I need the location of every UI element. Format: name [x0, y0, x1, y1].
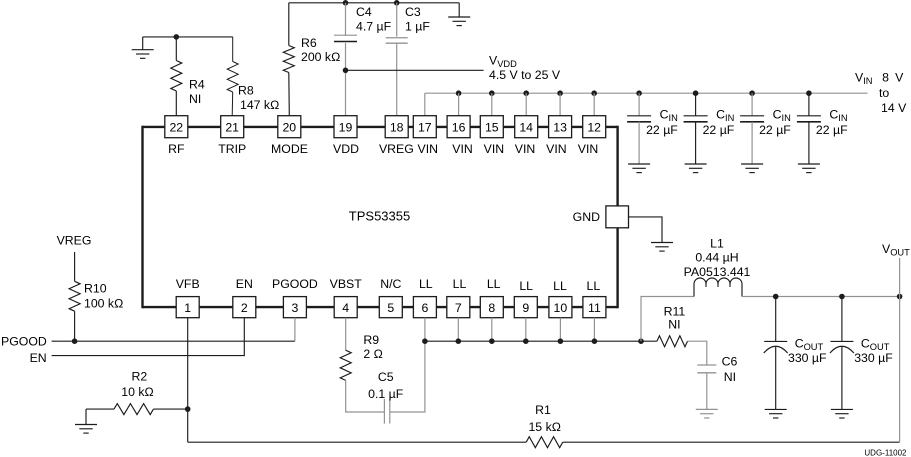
node VIN bus above pin 13 [557, 90, 563, 96]
node VIN bus above pin 12 [591, 90, 597, 96]
wire pin 6 stub [424, 318, 426, 342]
ground G3 (GND pin) [651, 242, 673, 244]
svg-text:VDD: VDD [333, 142, 359, 156]
node LL bus pin 11 [592, 338, 598, 344]
pin box 16 [447, 116, 470, 138]
resistor R4 [171, 61, 182, 92]
wire L1 to VOUT [742, 296, 900, 298]
wire COUT2 bottom lead [841, 347, 843, 410]
resistor R10 [69, 281, 80, 311]
svg-text:200 kΩ: 200 kΩ [301, 50, 340, 64]
wire R4 to pin 22 [175, 91, 177, 116]
wire VFB (pin 1) down [187, 318, 189, 443]
svg-text:18: 18 [390, 120, 404, 134]
wire CIN1 top lead [638, 93, 640, 116]
node LL bus pin 7 [456, 338, 462, 344]
svg-text:0.44 µH: 0.44 µH [695, 251, 738, 265]
svg-text:VREG: VREG [379, 142, 414, 156]
pin box 13 [549, 116, 572, 138]
ground G7 (COUT2) [831, 408, 853, 410]
node R2/VFB junction [185, 406, 191, 412]
wire C4 to pin 19 [345, 43, 347, 116]
pin box 18 [385, 116, 408, 138]
svg-text:22 µF: 22 µF [816, 123, 848, 137]
svg-text:7: 7 [455, 301, 462, 315]
svg-text:10 kΩ: 10 kΩ [121, 385, 153, 399]
svg-text:5: 5 [387, 301, 394, 315]
svg-text:NI: NI [189, 92, 201, 106]
wire R4 top lead [175, 37, 177, 61]
wire ground rail top-left (R4/R8 node) [143, 36, 233, 38]
svg-text:N/C: N/C [380, 277, 401, 291]
svg-text:VIN 8 V: VIN 8 V [855, 70, 904, 86]
svg-text:R2: R2 [132, 370, 148, 384]
wire stem to ground G2 [458, 3, 460, 17]
svg-text:147 kΩ: 147 kΩ [240, 98, 279, 112]
svg-text:LL: LL [419, 277, 433, 291]
chip outline bottom [143, 306, 618, 308]
svg-text:NI: NI [668, 318, 680, 332]
wire GND pin to ground [629, 217, 663, 243]
resistor R11 [657, 336, 688, 347]
svg-text:VREG: VREG [57, 233, 92, 247]
pin box 4 [334, 297, 357, 318]
wire R10 to PGOOD [74, 311, 76, 341]
ground G1 (top-left) [132, 49, 154, 51]
wire pin 8 stub [491, 318, 493, 342]
svg-text:NI: NI [724, 370, 736, 384]
wire pin 9 stub [525, 318, 527, 342]
inductor L1 [694, 278, 742, 297]
svg-text:1 µF: 1 µF [405, 20, 430, 34]
node C4 top junction [343, 0, 349, 6]
capacitor C6 [697, 364, 716, 366]
svg-text:VIN: VIN [515, 142, 536, 156]
pin box 8 [480, 297, 503, 318]
wire COUT1 bottom lead [775, 347, 777, 410]
wire C3 top lead [396, 3, 398, 37]
svg-text:0.1 µF: 0.1 µF [368, 387, 404, 401]
svg-text:330 µF: 330 µF [788, 351, 827, 365]
capacitor CIN4 [797, 115, 821, 117]
svg-text:C5: C5 [378, 370, 394, 384]
wire LL to L1 [641, 297, 694, 342]
svg-text:PA0513.441: PA0513.441 [684, 265, 751, 279]
svg-text:15: 15 [485, 120, 499, 134]
wire CIN2 top lead [695, 93, 697, 116]
svg-text:4.7 µF: 4.7 µF [356, 20, 392, 34]
wire CIN2 bottom lead [695, 122, 697, 164]
wire pin 11 stub [593, 318, 595, 342]
node CIN4 junction [806, 90, 812, 96]
node COUT1 junction [773, 294, 779, 300]
chip outline left [141, 126, 143, 309]
svg-text:16: 16 [452, 120, 466, 134]
svg-text:14: 14 [519, 120, 533, 134]
svg-text:19: 19 [339, 120, 353, 134]
resistor R1 [526, 437, 563, 448]
capacitor C4 [334, 34, 357, 36]
svg-text:11: 11 [588, 301, 601, 315]
resistor R9 [340, 350, 351, 380]
wire pin 4 stub [345, 318, 347, 351]
capacitor CIN2 [684, 115, 708, 117]
ground CIN2 [685, 163, 707, 165]
wire CIN1 bottom lead [638, 122, 640, 164]
svg-text:TPS53355: TPS53355 [349, 208, 410, 223]
pin box 21 [221, 116, 244, 138]
svg-text:MODE: MODE [271, 142, 308, 156]
svg-text:LL: LL [587, 279, 601, 293]
wire pin 3 stub [294, 318, 296, 342]
svg-text:R8: R8 [238, 84, 254, 98]
pin box 11 [583, 297, 606, 318]
svg-text:VIN: VIN [578, 142, 599, 156]
svg-text:VBST: VBST [330, 277, 363, 291]
node R10/PGOOD junction [72, 338, 78, 344]
wire pin 16 stub [458, 93, 460, 116]
svg-text:VFB: VFB [176, 277, 200, 291]
pin box 20 [278, 116, 301, 138]
pin box GND [606, 206, 629, 228]
svg-text:EN: EN [30, 351, 47, 365]
capacitor COUT1 [764, 340, 787, 342]
svg-text:6: 6 [421, 301, 428, 315]
svg-text:R4: R4 [189, 78, 205, 92]
wire R2 to ground [85, 409, 87, 424]
op-amp U1 chip outline top [143, 126, 618, 128]
pin box 6 [413, 297, 436, 318]
wire pin 13 stub [559, 93, 561, 116]
wire R6 top lead [288, 3, 290, 46]
wire CIN4 top lead [808, 93, 810, 116]
pin box 12 [583, 116, 606, 138]
svg-text:PGOOD: PGOOD [1, 334, 47, 348]
svg-text:C6: C6 [722, 355, 738, 369]
svg-text:22 µF: 22 µF [703, 123, 735, 137]
pin box 17 [413, 116, 436, 138]
svg-text:R6: R6 [301, 36, 317, 50]
ground G6 (COUT1) [765, 408, 787, 410]
svg-text:13: 13 [553, 120, 567, 134]
wire VIN bus [425, 92, 868, 94]
svg-text:20: 20 [282, 120, 296, 134]
svg-text:GND: GND [573, 210, 600, 224]
wire R8 top lead [232, 37, 234, 62]
svg-text:L1: L1 [710, 237, 724, 251]
ground G4 (R2) [75, 424, 97, 426]
svg-text:2: 2 [241, 301, 248, 315]
resistor R6 [283, 46, 294, 73]
node VOUT junction [897, 294, 903, 300]
svg-text:UDG-11002: UDG-11002 [864, 448, 907, 457]
wire CIN3 top lead [751, 93, 753, 116]
svg-text:4: 4 [342, 301, 349, 315]
pin box 9 [514, 297, 537, 318]
wire pin 7 stub [457, 318, 459, 342]
wire R2 right lead [154, 408, 188, 410]
wire COUT2 top lead [841, 297, 843, 342]
svg-text:R10: R10 [84, 282, 107, 296]
svg-text:LL: LL [553, 279, 567, 293]
node CIN3 junction [749, 90, 755, 96]
resistor R8 [227, 62, 238, 93]
node LL/L1/R11 junction [638, 338, 644, 344]
wire EN [52, 318, 245, 356]
svg-text:to: to [879, 86, 889, 100]
wire C4 top lead [345, 3, 347, 36]
node LL bus pin 9 [523, 338, 529, 344]
pin box 10 [549, 297, 572, 318]
svg-text:LL: LL [519, 279, 533, 293]
svg-text:17: 17 [418, 120, 432, 134]
wire stem to ground G1 [142, 37, 144, 50]
svg-text:R1: R1 [535, 403, 551, 417]
node VIN bus above pin 14 [523, 90, 529, 96]
wire VVDD supply [346, 69, 484, 71]
node VDD junction [343, 68, 349, 74]
svg-text:15 kΩ: 15 kΩ [528, 420, 560, 434]
svg-text:1: 1 [184, 301, 191, 315]
svg-text:C4: C4 [356, 5, 372, 19]
svg-text:LL: LL [487, 277, 501, 291]
wire pin 15 stub [491, 93, 493, 116]
ground CIN4 [798, 163, 820, 165]
wire VFB to R1 [188, 441, 527, 443]
resistor R2 [114, 404, 154, 415]
capacitor CIN1 [627, 115, 651, 117]
capacitor C5 [383, 399, 385, 424]
ground G5 (C6) [696, 408, 718, 410]
ground G2 (top rail) [448, 16, 470, 18]
wire pin 14 stub [525, 93, 527, 116]
wire CIN3 bottom lead [751, 122, 753, 164]
wire R11 to C6 [688, 341, 707, 365]
node VIN bus above pin 15 [489, 90, 495, 96]
pin box 7 [447, 297, 470, 318]
svg-text:EN: EN [236, 277, 253, 291]
pin box 15 [480, 116, 503, 138]
node VIN bus above pin 16 [456, 90, 462, 96]
svg-text:3: 3 [291, 301, 298, 315]
wire C6 to ground [706, 373, 708, 410]
wire pin 17 stub [424, 93, 426, 116]
ground CIN1 [628, 163, 650, 165]
capacitor C3 [386, 37, 408, 39]
pin box 2 [233, 297, 256, 318]
node LL bus pin 6 [422, 338, 428, 344]
node COUT2 junction [839, 294, 845, 300]
node LL bus pin 10 [558, 338, 564, 344]
node CIN1 junction [636, 90, 642, 96]
pin box 22 [165, 116, 188, 138]
wire C3 to pin 18 [396, 44, 398, 116]
capacitor COUT2 [830, 340, 853, 342]
svg-text:C3: C3 [405, 5, 421, 19]
pin box 1 [176, 297, 199, 318]
svg-text:PGOOD: PGOOD [272, 277, 318, 291]
svg-text:R9: R9 [363, 333, 379, 347]
wire VOUT vertical [899, 258, 901, 442]
wire PGOOD [52, 340, 295, 342]
node R4 top junction [174, 34, 180, 40]
wire COUT1 top lead [775, 297, 777, 342]
node C3 top junction [394, 0, 400, 6]
capacitor CIN3 [740, 115, 764, 117]
chip outline right [616, 126, 618, 309]
svg-text:VIN: VIN [484, 142, 505, 156]
wire LL bus [425, 340, 657, 342]
pin box 19 [334, 116, 357, 138]
svg-text:10: 10 [554, 301, 568, 315]
wire CIN4 bottom lead [808, 122, 810, 164]
svg-text:4.5 V to 25 V: 4.5 V to 25 V [489, 68, 561, 82]
wire R9 to C5 [346, 380, 385, 412]
wire pin 12 stub [593, 93, 595, 116]
wire ground rail top (R6/C4/C3) [289, 2, 459, 4]
node CIN2 junction [693, 90, 699, 96]
svg-text:12: 12 [587, 120, 601, 134]
svg-text:TRIP: TRIP [218, 142, 246, 156]
svg-text:VIN: VIN [546, 142, 567, 156]
svg-text:8: 8 [488, 301, 495, 315]
wire C5 to LL [390, 341, 425, 412]
svg-text:330 µF: 330 µF [854, 351, 893, 365]
node LL bus pin 8 [489, 338, 495, 344]
wire R8 to pin 21 [231, 92, 234, 116]
svg-text:2 Ω: 2 Ω [363, 347, 382, 361]
svg-text:22: 22 [169, 120, 183, 134]
ground CIN3 [741, 163, 763, 165]
svg-text:LL: LL [453, 277, 467, 291]
svg-text:VIN: VIN [418, 142, 439, 156]
svg-text:22 µF: 22 µF [646, 123, 678, 137]
pin box 5 [379, 297, 402, 318]
wire pin 10 stub [559, 318, 561, 342]
svg-text:9: 9 [522, 301, 529, 315]
wire R2 left lead [86, 408, 114, 410]
pin box 3 [283, 297, 306, 318]
pin box 14 [515, 116, 538, 138]
svg-text:R11: R11 [664, 304, 686, 318]
svg-text:RF: RF [168, 142, 185, 156]
svg-text:VIN: VIN [452, 142, 473, 156]
wire VREG to R10 [74, 252, 76, 281]
svg-text:21: 21 [225, 120, 239, 134]
svg-text:100 kΩ: 100 kΩ [84, 297, 123, 311]
wire R6 to pin 20 [288, 73, 291, 116]
svg-text:22 µF: 22 µF [759, 123, 791, 137]
wire R1 to VOUT [563, 441, 900, 443]
svg-text:14 V: 14 V [881, 101, 907, 115]
